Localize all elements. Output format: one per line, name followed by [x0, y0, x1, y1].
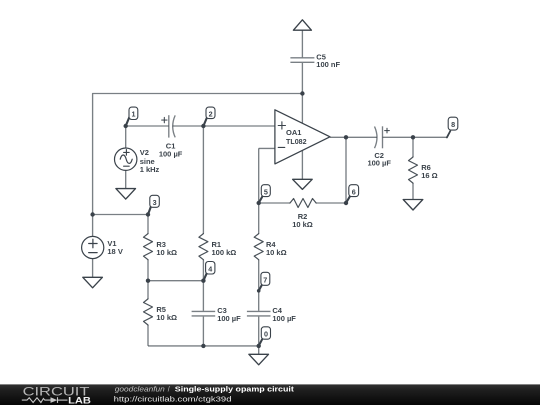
svg-text:10 kΩ: 10 kΩ	[156, 313, 177, 322]
svg-text:Single-supply opamp circuit: Single-supply opamp circuit	[175, 387, 295, 394]
svg-text:100 µF: 100 µF	[367, 159, 391, 168]
svg-text:LAB: LAB	[68, 395, 91, 405]
svg-text:5: 5	[264, 188, 268, 197]
svg-text:100 µF: 100 µF	[159, 149, 183, 158]
svg-text:8: 8	[451, 120, 455, 129]
svg-text:V2: V2	[140, 148, 149, 157]
svg-text:1: 1	[132, 110, 136, 119]
svg-text:100 nF: 100 nF	[316, 60, 340, 69]
svg-text:10 kΩ: 10 kΩ	[266, 248, 287, 257]
svg-text:0: 0	[264, 329, 268, 338]
svg-text:OA1: OA1	[286, 128, 301, 137]
svg-text:/: /	[168, 387, 170, 394]
svg-text:10 kΩ: 10 kΩ	[156, 248, 177, 257]
svg-text:100 µF: 100 µF	[217, 314, 241, 323]
svg-text:goodcleanfun: goodcleanfun	[115, 387, 165, 394]
svg-text:16 Ω: 16 Ω	[421, 171, 437, 180]
svg-text:100 µF: 100 µF	[272, 314, 296, 323]
svg-text:6: 6	[352, 188, 356, 197]
svg-text:18 V: 18 V	[107, 247, 122, 256]
svg-text:7: 7	[263, 275, 267, 284]
svg-text:2: 2	[209, 109, 213, 118]
svg-text:3: 3	[153, 198, 157, 207]
svg-text:10 kΩ: 10 kΩ	[292, 220, 313, 229]
svg-text:1 kHz: 1 kHz	[140, 165, 160, 174]
svg-text:TL082: TL082	[286, 137, 307, 146]
svg-text:http://circuitlab.com/ctgk39d: http://circuitlab.com/ctgk39d	[114, 396, 232, 403]
svg-text:4: 4	[208, 264, 212, 273]
svg-text:100 kΩ: 100 kΩ	[212, 248, 237, 257]
